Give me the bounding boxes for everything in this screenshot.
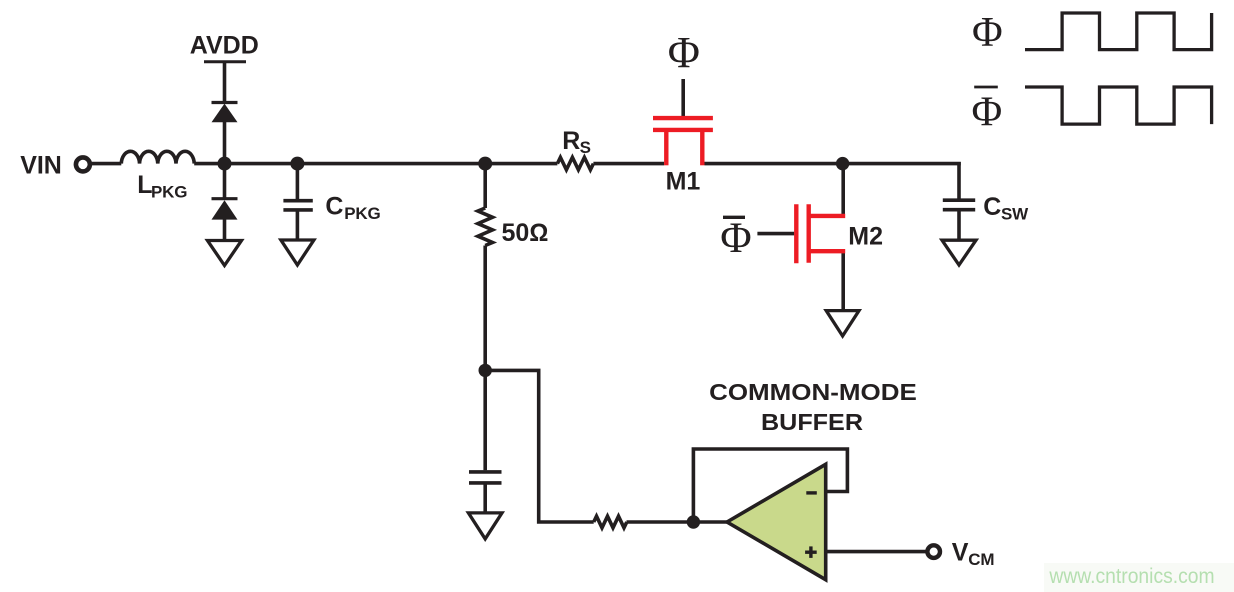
svg-text:Φ: Φ <box>972 89 1003 135</box>
svg-text:Φ: Φ <box>668 28 700 77</box>
svg-text:Φ: Φ <box>720 215 751 262</box>
svg-text:50Ω: 50Ω <box>502 219 549 247</box>
svg-text:CM: CM <box>968 550 994 569</box>
svg-text:C: C <box>325 193 343 221</box>
svg-text:AVDD: AVDD <box>190 31 259 59</box>
svg-text:VIN: VIN <box>20 151 62 179</box>
svg-text:S: S <box>580 138 591 157</box>
svg-text:www.cntronics.com: www.cntronics.com <box>1048 565 1214 588</box>
svg-text:M1: M1 <box>666 168 701 196</box>
svg-text:R: R <box>562 127 580 155</box>
svg-text:Φ: Φ <box>972 10 1003 56</box>
svg-text:SW: SW <box>1001 204 1029 223</box>
svg-text:C: C <box>983 193 1001 221</box>
svg-text:PKG: PKG <box>151 183 187 202</box>
svg-text:PKG: PKG <box>344 204 380 223</box>
svg-text:M2: M2 <box>848 223 883 251</box>
svg-text:BUFFER: BUFFER <box>761 409 863 435</box>
svg-text:COMMON-MODE: COMMON-MODE <box>709 379 917 405</box>
svg-text:V: V <box>952 539 969 567</box>
